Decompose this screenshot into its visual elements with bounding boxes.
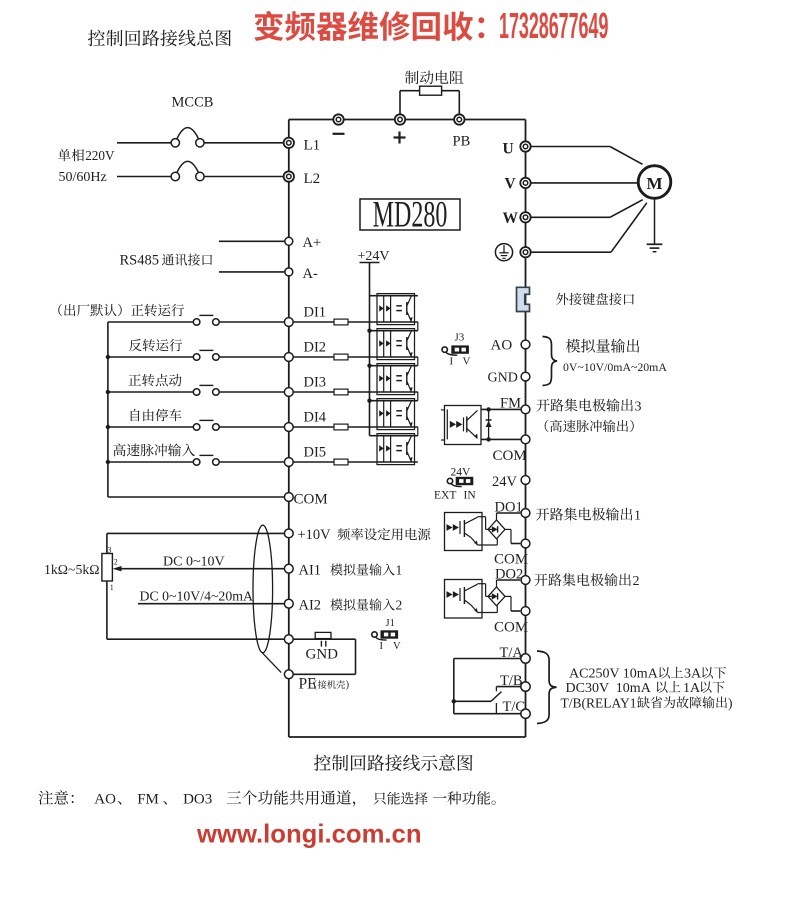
svg-text:DO3: DO3 [183,792,212,808]
svg-text:COM: COM [494,552,528,568]
svg-text:24V: 24V [492,474,518,490]
svg-text:DC 0~10V/4~20mA: DC 0~10V/4~20mA [140,589,253,604]
svg-text:2: 2 [633,574,640,589]
svg-text:1A: 1A [683,681,701,696]
svg-text:DI2: DI2 [304,339,327,355]
svg-text:3: 3 [635,399,642,414]
svg-text:DC 0~10V: DC 0~10V [163,555,225,570]
svg-text:DI4: DI4 [304,409,327,425]
svg-text:1: 1 [110,583,114,592]
svg-text:COM: COM [494,620,528,636]
svg-text:DI1: DI1 [304,304,327,320]
svg-text:PB: PB [453,134,471,150]
svg-text:A-: A- [303,266,318,282]
svg-text:220V: 220V [85,148,115,163]
svg-text:): ) [728,695,733,710]
svg-text:J3: J3 [455,332,465,344]
svg-text:W: W [503,210,519,227]
svg-text:V: V [463,356,471,368]
svg-text:3: 3 [108,546,112,555]
svg-text:COM: COM [294,491,328,507]
svg-text:AO: AO [94,792,116,808]
svg-text:+24V: +24V [358,249,390,264]
svg-text:www.longi.com.cn: www.longi.com.cn [196,821,422,849]
svg-text:J1: J1 [386,618,395,629]
svg-text:24V: 24V [451,467,472,479]
svg-text:DO2: DO2 [495,567,523,583]
svg-text:1kΩ~5kΩ: 1kΩ~5kΩ [44,562,100,577]
svg-text:AI1: AI1 [299,563,322,579]
svg-text:FM: FM [500,395,521,411]
svg-text:DC30V 10mA: DC30V 10mA [566,681,652,696]
svg-text:DO1: DO1 [495,500,523,516]
svg-text:DI5: DI5 [304,444,327,460]
svg-text:AC250V 10mA: AC250V 10mA [569,667,659,682]
svg-text:L2: L2 [304,171,321,187]
svg-text:MD280: MD280 [373,193,448,235]
svg-text:2: 2 [396,598,403,613]
svg-text:GND: GND [306,646,339,662]
svg-text:EXT: EXT [434,490,456,502]
svg-text:+10V: +10V [298,527,332,543]
svg-text:FM: FM [137,792,159,808]
svg-text:T/C: T/C [503,699,526,715]
svg-text:M: M [646,174,662,193]
svg-text:GND: GND [488,371,518,386]
svg-text:50/60Hz: 50/60Hz [59,170,107,185]
svg-text:RS485: RS485 [120,253,160,269]
svg-text:AI2: AI2 [299,598,322,614]
svg-text:COM: COM [493,448,527,464]
svg-text:V: V [393,641,401,652]
svg-text:0V~10V/0mA~20mA: 0V~10V/0mA~20mA [563,360,667,374]
svg-text:A+: A+ [303,235,322,251]
svg-text:2: 2 [114,558,118,567]
svg-text:T/B(RELAY1:: T/B(RELAY1: [561,695,641,710]
svg-text:): ) [346,680,349,691]
svg-text:MCCB: MCCB [172,95,214,111]
svg-text:L1: L1 [304,137,321,153]
svg-text:V: V [505,176,517,193]
svg-text:U: U [503,140,514,157]
svg-text:IN: IN [464,490,477,502]
svg-text:I: I [380,641,384,652]
svg-text:17328677649: 17328677649 [499,6,608,47]
svg-text:T/B: T/B [500,673,523,689]
svg-text:AO: AO [491,338,513,354]
svg-text:DI3: DI3 [304,374,327,390]
svg-text:T/A: T/A [500,645,524,661]
svg-text:3A: 3A [684,667,702,682]
svg-text:I: I [450,356,454,368]
svg-text:1: 1 [634,508,641,523]
svg-text:1: 1 [396,563,403,578]
